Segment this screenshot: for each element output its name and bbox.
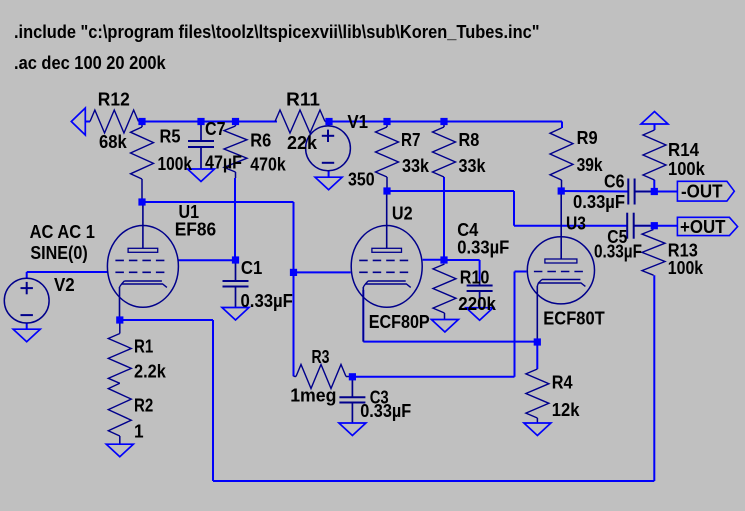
svg-text:2.2k: 2.2k [134, 362, 167, 382]
svg-text:U2: U2 [392, 204, 413, 224]
svg-text:22k: 22k [287, 133, 318, 153]
svg-text:ECF80P: ECF80P [369, 312, 430, 332]
svg-text:33k: 33k [459, 156, 487, 176]
svg-text:39k: 39k [577, 155, 604, 175]
svg-text:ECF80T: ECF80T [543, 309, 604, 329]
svg-text:R4: R4 [552, 373, 573, 393]
svg-text:R5: R5 [160, 127, 181, 147]
svg-text:100k: 100k [668, 159, 706, 179]
svg-text:R10: R10 [460, 268, 490, 288]
svg-text:+OUT: +OUT [680, 217, 726, 237]
svg-text:47µF: 47µF [205, 153, 242, 173]
svg-text:AC AC 1: AC AC 1 [30, 222, 95, 242]
svg-text:U3: U3 [566, 214, 586, 234]
svg-text:220k: 220k [458, 294, 497, 314]
svg-text:R6: R6 [250, 131, 271, 151]
svg-text:1meg: 1meg [290, 386, 336, 406]
svg-text:R11: R11 [286, 90, 320, 110]
svg-text:R12: R12 [98, 89, 130, 109]
svg-text:0.33µF: 0.33µF [360, 401, 411, 421]
svg-text:100k: 100k [668, 258, 704, 278]
svg-text:SINE(0): SINE(0) [30, 243, 87, 263]
svg-text:1: 1 [134, 422, 144, 442]
svg-text:12k: 12k [552, 400, 581, 420]
svg-text:350: 350 [348, 169, 375, 189]
svg-text:0.33µF: 0.33µF [241, 291, 293, 311]
svg-text:R2: R2 [134, 396, 153, 416]
svg-text:0.33µF: 0.33µF [457, 238, 509, 258]
svg-text:R1: R1 [134, 337, 153, 357]
svg-text:R7: R7 [401, 130, 421, 150]
svg-text:R14: R14 [668, 140, 699, 160]
svg-text:V2: V2 [54, 275, 75, 295]
svg-text:.include "c:\program files\too: .include "c:\program files\toolz\ltspice… [14, 22, 540, 42]
svg-text:C7: C7 [205, 119, 226, 139]
svg-text:R3: R3 [312, 347, 330, 367]
svg-text:100k: 100k [158, 154, 193, 174]
svg-text:.ac dec 100 20 200k: .ac dec 100 20 200k [14, 53, 167, 73]
svg-text:C1: C1 [241, 258, 262, 278]
svg-text:-OUT: -OUT [681, 182, 723, 202]
svg-text:470k: 470k [250, 154, 286, 174]
svg-text:R8: R8 [459, 130, 480, 150]
svg-text:V1: V1 [347, 112, 368, 132]
svg-text:68k: 68k [99, 132, 128, 152]
svg-text:C6: C6 [604, 172, 625, 192]
svg-text:EF86: EF86 [175, 220, 217, 240]
svg-text:0.33µF: 0.33µF [594, 242, 642, 262]
svg-text:0.33µF: 0.33µF [573, 192, 625, 212]
svg-text:33k: 33k [402, 156, 430, 176]
svg-text:R9: R9 [577, 128, 598, 148]
